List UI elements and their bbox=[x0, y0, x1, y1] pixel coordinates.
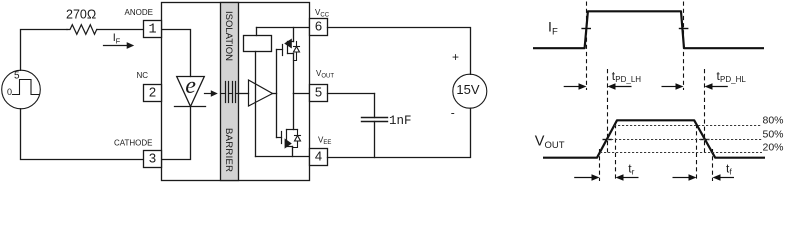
LED emission arrow bbox=[205, 93, 212, 95]
svg-text:0: 0 bbox=[7, 87, 12, 97]
pin 4 box bbox=[310, 149, 328, 166]
svg-text:F: F bbox=[552, 27, 558, 38]
arrow to IF rise bbox=[564, 86, 580, 88]
VCC rail bbox=[257, 27, 310, 29]
optocoupler IC body bbox=[162, 3, 310, 181]
arrow tf left bbox=[673, 177, 689, 179]
svg-text:F: F bbox=[116, 37, 121, 46]
dotted 50% line bbox=[607, 139, 762, 141]
PMOS Q1 source drop bbox=[293, 28, 295, 42]
arrowhead tPD_LH bbox=[608, 83, 616, 89]
pin 6 box bbox=[310, 19, 328, 36]
tick VOUT rise 50% bbox=[603, 139, 613, 141]
VEE rail bbox=[256, 156, 310, 158]
dashed line IF fall bbox=[683, 2, 685, 91]
tick IF rising edge bbox=[581, 28, 591, 30]
current arrow IF bbox=[104, 45, 129, 47]
wire pin6 to supply bbox=[328, 28, 471, 75]
svg-text:V: V bbox=[535, 134, 545, 150]
svg-text:3: 3 bbox=[149, 151, 156, 166]
pin 2 box bbox=[144, 85, 162, 102]
dotted 20% line bbox=[600, 152, 762, 154]
gate bus bbox=[276, 50, 278, 138]
dashed line tr end bbox=[615, 124, 617, 181]
arrowhead tf left bbox=[689, 174, 697, 180]
NMOS Q2 drain drop bbox=[293, 94, 295, 130]
wire top-left loop bbox=[21, 30, 68, 71]
arrow tf right bbox=[719, 177, 734, 179]
arrow to IF fall bbox=[662, 86, 678, 88]
dashed line IF rise bbox=[586, 2, 588, 91]
svg-text:6: 6 bbox=[315, 19, 322, 34]
LED emitter D1 bbox=[177, 77, 205, 107]
buffer amp U1 bbox=[249, 80, 273, 106]
arrowhead tr right bbox=[616, 174, 624, 180]
VOUT waveform bbox=[543, 120, 765, 157]
svg-text:OUT: OUT bbox=[321, 74, 334, 80]
svg-text:e: e bbox=[185, 73, 196, 99]
PMOS drain drop to VOUT node bbox=[293, 54, 295, 94]
arrow tr left bbox=[574, 177, 592, 179]
wire LED cathode to pin3 bbox=[162, 107, 191, 160]
wire bottom-left loop bbox=[21, 109, 144, 160]
svg-text:20%: 20% bbox=[763, 141, 784, 153]
svg-text:-: - bbox=[451, 105, 455, 119]
svg-text:270Ω: 270Ω bbox=[66, 7, 96, 21]
svg-text:CATHODE: CATHODE bbox=[114, 139, 153, 148]
svg-text:+: + bbox=[452, 50, 459, 64]
svg-text:2: 2 bbox=[149, 85, 156, 100]
pin 5 box bbox=[310, 85, 328, 102]
buffer amp input lead bbox=[239, 93, 249, 95]
dashed line VOUT rise 50% bbox=[607, 69, 609, 153]
pin 1 box bbox=[144, 21, 162, 38]
arrow tPD_LH bbox=[614, 86, 632, 88]
wire pin1 to LED anode bbox=[162, 30, 191, 77]
svg-text:5: 5 bbox=[315, 85, 322, 100]
dashed line VOUT fall 50% bbox=[704, 69, 706, 153]
svg-text:NC: NC bbox=[137, 71, 149, 80]
arrowhead tr left bbox=[592, 174, 600, 180]
NMOS Q2 bbox=[277, 137, 282, 139]
tick IF falling edge bbox=[679, 28, 689, 30]
pulse source V1 bbox=[2, 70, 41, 109]
VOUT node wire bbox=[294, 93, 310, 95]
svg-text:15V: 15V bbox=[456, 82, 479, 97]
supply source 15V bbox=[453, 74, 487, 108]
dashed line tf end bbox=[712, 149, 714, 181]
dashed line tr start bbox=[599, 149, 601, 181]
arrowhead tf right bbox=[713, 174, 721, 180]
IF waveform bbox=[533, 11, 764, 48]
tick VOUT fall 50% bbox=[700, 139, 710, 141]
arrow tPD_HL bbox=[712, 86, 728, 88]
svg-text:1: 1 bbox=[148, 23, 156, 38]
coupling capacitors inside barrier bbox=[221, 93, 226, 95]
detector block bbox=[256, 28, 258, 36]
NMOS source drop bbox=[292, 147, 294, 157]
wire pin5 to capacitor bbox=[328, 93, 375, 95]
arrowhead at IF fall bbox=[676, 83, 684, 89]
wire supply bottom to pin4 bbox=[328, 108, 471, 157]
svg-text:4: 4 bbox=[315, 149, 322, 164]
svg-text:EE: EE bbox=[323, 140, 331, 146]
svg-text:PD_HL: PD_HL bbox=[720, 75, 746, 84]
dotted 80% line bbox=[614, 125, 762, 127]
svg-text:CC: CC bbox=[320, 12, 329, 18]
isolation barrier bbox=[221, 3, 239, 181]
svg-text:OUT: OUT bbox=[545, 140, 565, 151]
NMOS body diode bbox=[297, 130, 299, 136]
svg-text:ANODE: ANODE bbox=[125, 8, 153, 17]
PMOS body diode bbox=[296, 42, 298, 47]
svg-text:50%: 50% bbox=[763, 128, 784, 140]
arrow tr right bbox=[623, 177, 639, 179]
arrowhead tPD_HL bbox=[705, 83, 713, 89]
arrowhead at IF rise bbox=[579, 83, 587, 89]
capacitor C1 bbox=[374, 94, 376, 118]
svg-text:r: r bbox=[632, 167, 635, 176]
svg-text:BARRIER: BARRIER bbox=[223, 128, 234, 172]
resistor R1 zigzag bbox=[67, 25, 97, 35]
wire block to VEE rail bbox=[255, 52, 257, 157]
svg-text:5: 5 bbox=[14, 71, 20, 82]
svg-text:ISOLATION: ISOLATION bbox=[223, 11, 234, 61]
svg-text:1nF: 1nF bbox=[389, 114, 412, 128]
pin 3 box bbox=[144, 151, 162, 168]
wire resistor to pin1 bbox=[97, 29, 144, 31]
dashed line tf start bbox=[696, 124, 698, 181]
PMOS Q1 bbox=[277, 49, 283, 51]
svg-text:PD_LH: PD_LH bbox=[615, 75, 641, 84]
buffer output lead bbox=[273, 93, 277, 95]
svg-text:80%: 80% bbox=[763, 115, 784, 127]
